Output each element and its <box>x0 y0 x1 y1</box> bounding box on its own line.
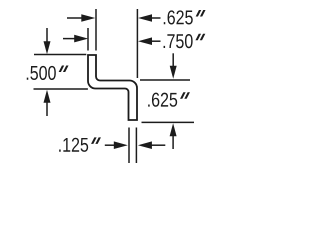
dim .125 right arrow (points left) <box>138 141 165 149</box>
extension line right of web top <box>140 79 190 81</box>
dim .750 left arrow (points right) <box>63 35 88 43</box>
label .125 <box>59 137 101 152</box>
extension line right of bottom leg end <box>142 121 195 123</box>
label .750 <box>164 34 206 49</box>
extension line above top leg left wall <box>87 28 89 51</box>
extension line left of top cap <box>34 54 86 56</box>
label .500 <box>27 66 69 81</box>
dim .625 top left arrow (points right) <box>67 14 95 22</box>
extension line left of web bottom <box>34 88 88 90</box>
dim .625 right up arrow <box>170 123 177 149</box>
extension line above top leg right wall <box>95 9 97 51</box>
dim .625 top right arrow (points left) <box>138 14 161 22</box>
dim .750 right arrow (points left) <box>138 37 161 45</box>
dim .500 down arrow <box>44 28 51 54</box>
extension line below bottom leg left wall <box>128 128 130 164</box>
extension line below bottom leg right wall <box>135 128 137 164</box>
extension line above bottom leg right wall <box>136 9 138 78</box>
dim .500 up arrow <box>44 90 51 116</box>
Z-profile cross-section outline <box>88 55 137 120</box>
dim .125 left arrow (points right) <box>105 141 128 149</box>
dim .625 right down arrow <box>170 53 177 79</box>
label .625 right <box>148 92 190 107</box>
label .625 top <box>164 10 206 25</box>
